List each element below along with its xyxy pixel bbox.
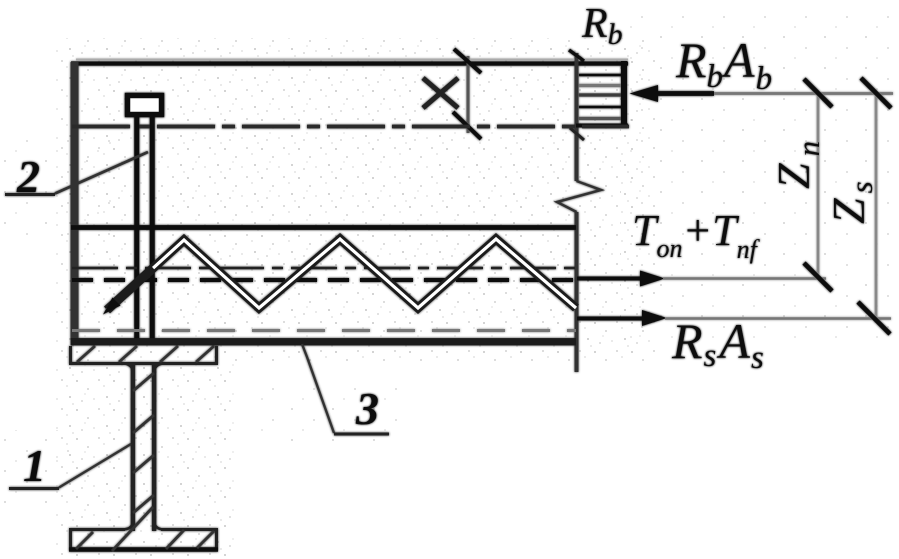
svg-text:3: 3 <box>355 383 379 434</box>
svg-text:1: 1 <box>23 440 46 491</box>
svg-text:2: 2 <box>16 151 40 202</box>
